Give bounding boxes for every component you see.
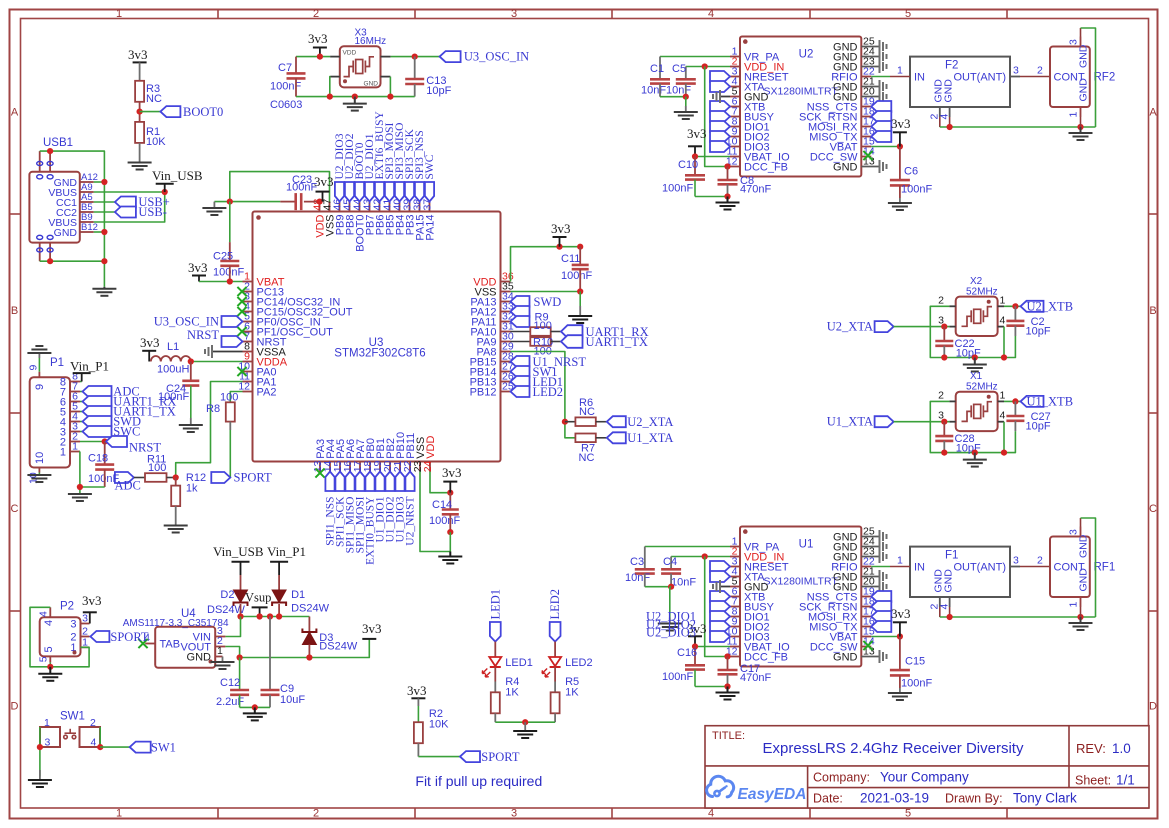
svg-text:3v3: 3v3	[891, 116, 911, 131]
filter F2	[910, 57, 1020, 120]
regulator U4 AMS1117-3.3	[123, 608, 229, 668]
svg-text:52MHz: 52MHz	[966, 287, 998, 298]
svg-text:LED2: LED2	[533, 385, 564, 399]
wire CC2	[94, 211, 115, 213]
wire VBUS A9 to Vin_USB	[94, 191, 165, 193]
wire X2 pin2 loop	[930, 306, 1015, 357]
junction caps gnd	[683, 94, 689, 100]
svg-text:2: 2	[938, 390, 944, 402]
svg-text:10pF: 10pF	[1026, 421, 1051, 433]
net flag SPI1_MISO (U3 bottom)	[344, 472, 356, 554]
svg-text:ExpressLRS 2.4Ghz Receiver Div: ExpressLRS 2.4Ghz Receiver Diversity	[763, 740, 1024, 757]
net flag SPORT (R2)	[460, 750, 520, 764]
U3 pin 20 PB2	[382, 438, 397, 472]
wire LED gnd rail	[495, 721, 555, 723]
wire RFIO to F2	[871, 76, 910, 78]
svg-text:4: 4	[38, 611, 50, 617]
svg-text:3v3: 3v3	[891, 606, 911, 621]
U3 pin 44 BOOT0	[351, 199, 366, 252]
U3 pin 21 PB10	[392, 432, 407, 472]
power flag 3v3 (U3 pin36)	[551, 221, 571, 247]
svg-text:3: 3	[511, 808, 517, 820]
wire rail to VIN	[225, 617, 240, 637]
svg-text:10pF: 10pF	[426, 85, 451, 97]
net flag U2_NRST (U3 bottom)	[404, 472, 416, 546]
wire LED to R4	[494, 667, 496, 692]
connector RF2	[1050, 37, 1115, 118]
svg-text:GND: GND	[833, 651, 858, 663]
net flag U2_XTA (R6)	[607, 415, 674, 429]
net flag (blank) U2 left pin 4	[710, 81, 730, 92]
connector USB1	[29, 137, 98, 261]
net flag (blank) U1 left pin 4	[710, 571, 730, 582]
diode D1 DS24W	[272, 575, 330, 617]
wire R5 to gnd rail	[554, 713, 556, 722]
wire X1 pin2 loop	[930, 401, 1015, 452]
U3 pin 47 VSS	[321, 199, 336, 237]
svg-text:F2: F2	[945, 60, 958, 72]
svg-text:U1_XTA: U1_XTA	[827, 415, 873, 429]
svg-text:VDD: VDD	[343, 50, 357, 57]
wire VSSA pin8	[213, 351, 243, 353]
U3 pin 2 PC13	[243, 281, 285, 299]
junction 3v3 X3	[317, 54, 323, 60]
capacitor C22 10pF	[935, 327, 981, 360]
resistor R11 100	[145, 454, 167, 482]
U3 pin 29 PA8	[477, 341, 514, 359]
junctions Vsup rail	[237, 613, 243, 619]
wire VSS pin23 to C14 gnd	[420, 472, 450, 552]
svg-text:10nF: 10nF	[625, 572, 650, 584]
U1 pin 14 DCC_SW	[810, 636, 875, 654]
led LED2 symbol	[542, 657, 593, 677]
junction VSS C11	[577, 288, 583, 294]
radio U1 SX1280IMLTRT	[740, 527, 861, 667]
wire RF2 pin1 to gnd	[1080, 117, 1082, 127]
wire pin4 down	[1003, 327, 1005, 358]
power flag 3v3 (U1 VBAT)	[891, 606, 911, 637]
svg-text:4: 4	[1000, 410, 1006, 422]
svg-text:2: 2	[1037, 65, 1043, 77]
junction P1 gnd	[77, 484, 83, 490]
capacitor C16 100nF	[662, 647, 705, 687]
U3 pin 37 PA14	[421, 199, 436, 241]
svg-text:C25: C25	[213, 251, 233, 263]
svg-text:100nF: 100nF	[286, 182, 317, 194]
junctions gnd rail	[947, 124, 953, 130]
svg-text:C: C	[11, 503, 19, 515]
svg-text:D2: D2	[220, 589, 234, 601]
wire 3v3 to VBAT_IO	[695, 646, 730, 648]
net flag SPORT (R8)	[211, 471, 272, 485]
junction VBAT 3v3	[897, 143, 903, 149]
U3 pin 28 PB15	[470, 351, 514, 369]
ground C6	[888, 198, 912, 210]
svg-text:1K: 1K	[505, 687, 519, 699]
wire VOUT rail	[225, 639, 369, 658]
junction VBAT_IO	[692, 643, 698, 649]
resistor R3	[135, 81, 162, 105]
resistor R2 10K	[414, 708, 449, 743]
svg-text:TITLE:: TITLE:	[712, 730, 745, 742]
ground P1 pin10	[27, 473, 51, 483]
U2 pin 22 RFIO	[831, 66, 875, 84]
svg-text:1: 1	[1068, 602, 1080, 608]
svg-text:C: C	[1149, 503, 1157, 515]
svg-text:10K: 10K	[429, 719, 449, 731]
svg-text:C0603: C0603	[270, 99, 302, 111]
U3 pin 36 VDD	[473, 271, 514, 289]
net flag BOOT0 (U3 top)	[354, 142, 366, 201]
svg-text:L1: L1	[167, 341, 179, 353]
diode D2 DS24W	[207, 575, 248, 617]
svg-text:C1: C1	[650, 63, 664, 75]
U2 pin 15 VBAT	[830, 136, 875, 154]
wire VDD_IN to DCC_FB	[705, 557, 730, 657]
ground P2	[38, 667, 62, 681]
svg-text:4: 4	[43, 620, 55, 626]
wire RF2 pin3 antenna loop	[1081, 28, 1096, 127]
ground (U1 right pin, sideways)	[880, 580, 887, 593]
svg-text:P2: P2	[60, 601, 74, 613]
resistor R10 100 (PA9)	[511, 337, 562, 358]
U1 pin 1 VR_PA	[730, 536, 780, 554]
ground X2	[963, 358, 987, 372]
svg-text:SWC: SWC	[424, 154, 436, 179]
title block	[705, 726, 1149, 808]
junction caps gnd	[668, 584, 674, 590]
svg-text:10K: 10K	[146, 136, 166, 148]
svg-text:EasyEDA: EasyEDA	[738, 786, 807, 803]
junction L1 C24	[188, 358, 194, 364]
junction BOOT0 node	[137, 109, 143, 115]
wire pin B12	[94, 231, 105, 233]
capacitor C14 100nF	[429, 493, 460, 532]
U2 pin 1 VR_PA	[730, 46, 780, 64]
capacitor C3 10nF	[625, 547, 655, 587]
svg-text:U2_NRST: U2_NRST	[404, 497, 416, 546]
resistor R8 100	[206, 392, 238, 422]
wire VBUS B9	[94, 192, 165, 222]
svg-text:R8: R8	[206, 403, 220, 415]
svg-text:16MHz: 16MHz	[355, 36, 387, 47]
svg-text:RF2: RF2	[1094, 71, 1116, 83]
wire R3-R1	[139, 102, 141, 122]
net flag UART1_TX	[561, 335, 648, 349]
wire pin1 to U1_XTB	[1004, 400, 1021, 402]
svg-text:Sheet:: Sheet:	[1075, 774, 1111, 788]
net flag SPI3_NSS (U3 top)	[414, 130, 426, 201]
ground (U2 right pin, sideways)	[880, 60, 887, 73]
net flag ADC (R11)	[115, 472, 141, 493]
U3 pin 6 PF1/OSC_OUT	[243, 321, 334, 339]
net flag UART1_RX	[561, 325, 649, 339]
net flag (blank) U1 left pin 6	[710, 591, 730, 602]
U3 pin 46 PB9	[331, 199, 346, 236]
wire PA8 to R6/R7	[511, 352, 576, 438]
resistor R4 1K	[491, 676, 520, 713]
net flag U1_DIO1 (U3 bottom)	[374, 472, 386, 543]
svg-text:U1: U1	[799, 539, 814, 551]
net flag LED1 (U3 right)	[511, 375, 564, 389]
ground (U2 right pin, sideways)	[880, 50, 887, 63]
net flag U2_XTA	[827, 320, 894, 334]
net flag (blank) U2 left pin 7	[710, 111, 730, 122]
svg-text:LED1: LED1	[505, 657, 533, 669]
ground (C23 left)	[202, 202, 226, 215]
net flag ADC (P1)	[80, 385, 140, 399]
U3 pin 17 PA7	[352, 439, 367, 472]
U2 pin 13 GND	[833, 156, 879, 174]
power flag Vsup	[245, 591, 271, 617]
U3 pin 13 PA3	[312, 439, 327, 472]
U3 pin 18 PB0	[362, 438, 377, 472]
svg-text:1: 1	[897, 65, 903, 77]
wire F2 OUT to RF2	[1020, 76, 1050, 78]
wire 3v3 to X3 and C7	[296, 56, 330, 58]
svg-text:STM32F302C8T6: STM32F302C8T6	[334, 348, 425, 360]
wire R1 to ground	[139, 143, 141, 163]
wire X3 pin3 down	[329, 77, 332, 97]
wire ADC to R11	[134, 477, 145, 479]
svg-text:10nF: 10nF	[671, 577, 696, 589]
svg-text:100uH: 100uH	[157, 364, 189, 376]
wire F1 gnd pins down	[940, 607, 950, 617]
svg-text:1: 1	[897, 555, 903, 567]
net flag (blank) U2 left pin 9	[710, 131, 730, 142]
capacitor C23 100nF	[280, 174, 319, 210]
junction VDD_IN	[702, 553, 708, 559]
U3 pin 14 PA4	[322, 439, 337, 472]
net flag U1_DIO3 (U3 bottom)	[394, 472, 406, 543]
U2 pin 6 XTB	[730, 96, 765, 114]
U3 pin 43 PB7	[361, 199, 376, 236]
svg-text:GND: GND	[1078, 568, 1090, 592]
wire U1 VBAT to 3v3	[871, 636, 900, 638]
ground C16 C17	[716, 687, 740, 700]
wire R11 to node	[167, 477, 176, 479]
U1 pin 4 XTA	[730, 566, 765, 584]
net flag SW1	[130, 740, 176, 754]
ground C14	[438, 552, 462, 564]
svg-text:LED1: LED1	[488, 589, 502, 620]
connector P1	[28, 357, 81, 484]
net flag SPI1_SCK (U3 bottom)	[334, 472, 346, 548]
svg-text:3v3: 3v3	[314, 174, 334, 189]
junction 3v3 pin36	[556, 244, 562, 250]
junction gnd rail	[252, 704, 258, 710]
U1 pin 21 GND	[833, 566, 879, 584]
svg-text:SX1280IMLTRT: SX1280IMLTRT	[763, 576, 838, 588]
wire PA1 to R11/R12 node	[176, 382, 243, 478]
U2 pin 11 VBAT_IO	[727, 146, 790, 164]
ground (U1 pin5, sideways)	[713, 580, 720, 593]
capacitor C27 10pF	[1006, 401, 1050, 432]
junction C28	[941, 419, 947, 425]
svg-text:3: 3	[1068, 39, 1080, 45]
wire pin4 down	[1003, 422, 1005, 453]
svg-text:B: B	[11, 305, 18, 317]
capacitor C1 10nF	[641, 57, 670, 97]
svg-text:SPORT: SPORT	[110, 630, 149, 644]
capacitor C11 100nF	[561, 244, 592, 292]
capacitor C18 100nF	[88, 442, 119, 488]
svg-text:3v3: 3v3	[140, 335, 160, 350]
net flag (blank) U2 right pin 17	[871, 121, 891, 132]
U1 pin 11 VBAT_IO	[727, 636, 790, 654]
svg-text:5: 5	[905, 808, 911, 820]
U1 pin 20 GND	[833, 576, 879, 594]
net flag (blank) U1 left pin 7	[710, 601, 730, 612]
svg-text:GND: GND	[1078, 78, 1090, 102]
wire U1 pin5 gnd	[721, 586, 730, 588]
crystal X2 52MHz	[938, 276, 1005, 336]
svg-text:LED2: LED2	[548, 589, 562, 620]
net flag USB+	[115, 195, 170, 209]
svg-text:52MHz: 52MHz	[966, 382, 998, 393]
svg-text:U3_OSC_IN: U3_OSC_IN	[154, 315, 219, 329]
svg-text:10nF: 10nF	[641, 85, 666, 97]
svg-text:3: 3	[511, 8, 517, 20]
wire flag to LED LED1	[494, 642, 496, 657]
svg-text:100nF: 100nF	[88, 473, 119, 485]
power flag 3v3 (U3 pin1)	[188, 260, 208, 282]
wire X3 out to flag	[391, 56, 440, 58]
svg-text:470nF: 470nF	[740, 672, 771, 684]
ground (U2 right pin, sideways)	[880, 40, 887, 53]
ground (U2 pin5, sideways)	[713, 90, 720, 103]
junction shield bottom	[47, 258, 53, 264]
net flag SW1 (U3 right)	[511, 365, 558, 379]
capacitor C5 10nF	[666, 63, 696, 97]
power flag 3v3 with L1 (VDDA)	[140, 335, 160, 362]
wire gnd to C23	[214, 201, 280, 203]
ground (U1 right pin, sideways)	[880, 540, 887, 553]
wire flag to LED LED2	[554, 642, 556, 657]
junction NRST C18	[102, 438, 108, 444]
junction P2 gnd	[47, 664, 53, 670]
wire RFIO to F1	[871, 566, 910, 568]
U2 pin 16 MISO_TX	[809, 126, 875, 144]
capacitor C9 10uF	[261, 617, 306, 708]
capacitor C17 470nF	[718, 657, 772, 687]
svg-text:2021-03-19: 2021-03-19	[860, 791, 929, 806]
net flag SPI3_MOSI (U3 top)	[384, 122, 396, 201]
svg-text:100: 100	[220, 392, 238, 404]
svg-text:2: 2	[1037, 555, 1043, 567]
U2 pin 18 SCK_RTSN	[799, 106, 875, 124]
svg-text:BOOT0: BOOT0	[183, 105, 223, 119]
wire to R6	[565, 421, 576, 423]
ground SW1	[28, 770, 52, 787]
mcu U3 STM32F302C8T6	[253, 212, 501, 462]
svg-text:PA2: PA2	[257, 386, 277, 398]
svg-text:PB12: PB12	[470, 386, 497, 398]
U3 pin 8 VSSA	[243, 341, 287, 359]
svg-text:C12: C12	[220, 677, 240, 689]
power flag 3v3 (VOUT)	[362, 621, 382, 639]
U2 pin 9 DIO2	[730, 126, 770, 144]
capacitor C13 10pF	[405, 57, 451, 97]
net flag (blank) U1 right pin 17	[871, 611, 891, 622]
wire SW1 pins 1-3	[39, 727, 41, 777]
svg-text:Tony Clark: Tony Clark	[1013, 791, 1077, 806]
svg-text:SW1: SW1	[151, 740, 176, 754]
U1 pin 22 RFIO	[831, 556, 875, 574]
wire F1 OUT to RF1	[1020, 566, 1050, 568]
ground C11	[568, 292, 592, 324]
U3 pin 31 PA10	[470, 321, 513, 339]
wire VSS pin35 to C11 gnd	[511, 291, 581, 293]
connector P2	[38, 601, 90, 663]
net flag (blank) U1 left pin 8	[710, 611, 730, 622]
svg-text:C16: C16	[677, 647, 697, 659]
net flag NRST (pin7)	[187, 328, 242, 347]
junction VDD pin48	[317, 199, 323, 205]
junction R6	[562, 419, 568, 425]
power flag 3v3 (X3)	[308, 31, 328, 57]
EasyEDA logo	[707, 776, 807, 803]
no-connect X DCC_SW	[863, 151, 872, 160]
ground (U2 right pin, sideways)	[880, 80, 887, 93]
svg-text:C10: C10	[678, 159, 698, 171]
capacitor C28 10pF	[935, 422, 981, 455]
U2 pin 19 NSS_CTS	[807, 96, 875, 114]
ground C1/C5	[674, 97, 698, 119]
wire LED to R5	[554, 667, 556, 692]
svg-text:U2: U2	[799, 49, 814, 61]
title block texts	[712, 730, 1135, 806]
svg-text:C3: C3	[630, 556, 644, 568]
wire SW1 pins 2-4	[99, 727, 101, 747]
U3 pin 33 PA12	[470, 301, 513, 319]
svg-text:3: 3	[45, 737, 51, 749]
U2 pin 10 DIO3	[726, 136, 770, 154]
net flag (blank) U1 right pin 18	[871, 601, 891, 612]
svg-text:Fit if pull up required: Fit if pull up required	[415, 773, 542, 789]
net flag SPI3_SCK (U3 top)	[404, 128, 416, 201]
U3 pin 27 PB14	[470, 361, 514, 379]
svg-text:2: 2	[313, 808, 319, 820]
power flag 3v3 (U1 VBAT_IO)	[687, 621, 707, 647]
inductor L1 100uH	[151, 341, 191, 376]
ground above P1	[27, 346, 51, 372]
U3 pin 12 PA2	[238, 381, 276, 399]
svg-text:IN: IN	[914, 71, 925, 83]
svg-text:3v3: 3v3	[308, 31, 328, 46]
ground C3/C4	[658, 587, 682, 631]
svg-text:2: 2	[938, 295, 944, 307]
wire USB1 shield top	[40, 151, 105, 182]
svg-text:Vin_USB: Vin_USB	[152, 168, 203, 183]
svg-text:U2_XTA: U2_XTA	[827, 320, 873, 334]
capacitor C24 100nF	[158, 362, 199, 426]
U1 pin 13 GND	[833, 646, 879, 664]
U2 pin 23 GND	[833, 56, 879, 74]
net flag U1_NRST (U3 right)	[511, 355, 587, 369]
svg-text:GND: GND	[1078, 44, 1090, 68]
capacitor C15 100nF	[890, 637, 933, 690]
svg-text:DCC_FB: DCC_FB	[744, 161, 788, 173]
wire CC1	[94, 201, 115, 203]
svg-text:1: 1	[1068, 112, 1080, 118]
svg-text:3v3: 3v3	[407, 683, 427, 698]
U1 pin 7 BUSY	[730, 596, 775, 614]
net flag SWD (P1)	[80, 415, 141, 429]
ground (U1 right pin, sideways)	[880, 550, 887, 563]
U3 pin 24 VDD	[422, 436, 437, 473]
net flag (blank) U1 left pin 3	[710, 561, 730, 572]
